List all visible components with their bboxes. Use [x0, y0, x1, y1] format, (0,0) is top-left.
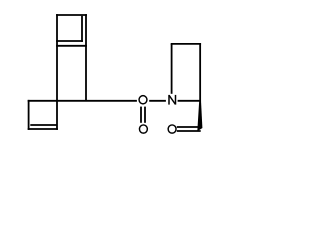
- node O aldehyde oxygen: [168, 125, 176, 133]
- wire N-oxide double bond line 1: [140, 107, 142, 123]
- wire aldehyde C=O double bond lower line: [177, 130, 201, 132]
- wire bond O to N: [149, 100, 166, 102]
- wire aldehyde C=O double bond upper line: [177, 126, 200, 128]
- node O ester oxygen: [139, 96, 147, 104]
- wire ring A left edge continuing down as shared vertical: [56, 14, 58, 130]
- wire ring C bottom edge: [28, 128, 58, 130]
- wire ring A double bond inner vertical line: [81, 16, 83, 42]
- wire ring A right edge continuing down tall ring B right edge: [85, 14, 87, 101]
- wire ring A bottom edge: [56, 45, 87, 47]
- wire cyclobutene ring C left edge: [28, 100, 30, 130]
- wire azetidine left edge: [171, 44, 173, 94]
- node N azetidine nitrogen: [169, 95, 176, 105]
- wire N-oxide double bond line 2: [144, 107, 146, 123]
- wedge stereo bond from azetidine C2 to CHO: [197, 101, 202, 132]
- wire ring A double bond inner horizontal line: [56, 40, 83, 42]
- wire long horizontal bond from rings to ester O: [28, 100, 137, 102]
- node O oxide oxygen: [139, 125, 147, 133]
- wire cyclobutene ring A top edge: [56, 14, 87, 16]
- wire azetidine right edge: [199, 43, 201, 102]
- wire ring C double bond inner line: [30, 124, 56, 126]
- wire azetidine top edge: [171, 43, 201, 45]
- wire azetidine bottom edge: [178, 100, 201, 102]
